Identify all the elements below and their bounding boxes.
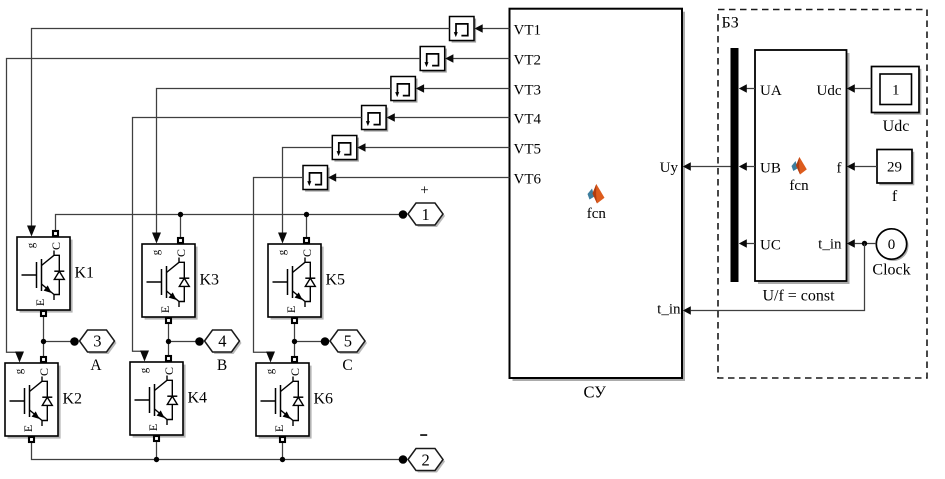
- wire phase B stub to port 4: [169, 341, 200, 343]
- junction on Clock wire: [862, 241, 867, 246]
- IGBT half-bridge switch K4: [130, 351, 207, 442]
- svg-text:БЗ: БЗ: [722, 15, 739, 32]
- wire branch to K5 collector: [306, 215, 308, 245]
- constant block f = 29: [877, 150, 914, 206]
- svg-text:K1: K1: [75, 265, 95, 282]
- wire DC+ bus from port 1 to collectors of K1 K3 K5: [56, 215, 404, 238]
- port 3 (phase A): [70, 330, 116, 354]
- wire VT6 gate of K6: [254, 178, 304, 353]
- svg-text:3: 3: [93, 331, 101, 350]
- wire DC- bus from emitters of K2 K4 K6 to port 2: [32, 436, 404, 460]
- junction phase A: [41, 339, 46, 344]
- svg-text:U/f = const: U/f = const: [762, 288, 835, 305]
- svg-text:VT2: VT2: [514, 52, 542, 68]
- svg-text:f: f: [837, 160, 842, 176]
- label - of DC bus: [420, 434, 427, 436]
- wire VT5 gate of K5: [283, 148, 333, 234]
- svg-text:0: 0: [888, 237, 896, 253]
- svg-text:K3: K3: [200, 272, 220, 289]
- wire VT2 gate of K2: [7, 59, 421, 353]
- memory block M6: [303, 166, 336, 192]
- svg-text:VT1: VT1: [514, 22, 542, 38]
- wire K4 emitter to DC- bus: [156, 435, 158, 460]
- svg-text:+: +: [420, 182, 428, 198]
- dashed boundary of BZ (БЗ) subsystem: [718, 10, 927, 379]
- memory block M1: [450, 17, 483, 43]
- wire from CY output VT5 to memory block M5: [365, 147, 509, 149]
- svg-text:СУ: СУ: [583, 382, 606, 401]
- IGBT half-bridge switch K6: [256, 352, 333, 443]
- wire from CY output VT2 to memory block M2: [453, 58, 509, 60]
- svg-text:UA: UA: [760, 83, 782, 99]
- svg-text:VT6: VT6: [514, 171, 542, 187]
- svg-text:f: f: [892, 188, 898, 205]
- svg-text:UC: UC: [760, 237, 781, 253]
- svg-text:29: 29: [887, 160, 902, 176]
- svg-text:K2: K2: [63, 391, 83, 408]
- fcn icon of U/f block: [789, 157, 809, 194]
- memory block M4: [362, 106, 395, 132]
- junction on DC+ bus at K5: [304, 212, 309, 217]
- svg-text:Uy: Uy: [660, 160, 679, 176]
- svg-text:K6: K6: [314, 391, 334, 408]
- port 5 (phase C): [321, 330, 367, 354]
- fcn icon of CY: [587, 184, 607, 222]
- wire from CY output VT4 to memory block M4: [395, 117, 510, 119]
- constant block Udc = 1: [872, 67, 922, 136]
- wire Udc constant to U/f block: [855, 88, 872, 90]
- Clock block: [872, 229, 910, 279]
- wire branch to K3 collector: [180, 215, 182, 245]
- wire VT3 gate of K3: [157, 89, 391, 234]
- junction phase B: [166, 339, 171, 344]
- svg-text:4: 4: [218, 331, 226, 350]
- svg-text:K4: K4: [188, 390, 208, 407]
- wire UC output into mux bar: [747, 243, 756, 245]
- IGBT half-bridge switch K3: [142, 233, 219, 324]
- svg-text:VT3: VT3: [514, 82, 542, 98]
- junction phase C: [292, 339, 297, 344]
- port 1 (DC+): [399, 203, 445, 227]
- svg-text:UB: UB: [760, 160, 781, 176]
- wire phase A stub to port 3: [44, 341, 75, 343]
- svg-text:K5: K5: [326, 272, 346, 289]
- wire f constant to U/f block: [855, 166, 877, 168]
- wire from CY output VT6 to memory block M6: [336, 177, 510, 179]
- wire phase C: K5 emitter to K6 collector: [294, 317, 296, 363]
- wire VT4 gate of K4: [133, 118, 362, 352]
- wire UA output into mux bar: [747, 88, 756, 90]
- wire UB output into mux bar: [747, 166, 756, 168]
- svg-text:VT5: VT5: [514, 141, 542, 157]
- svg-text:5: 5: [344, 331, 352, 350]
- memory block M5: [332, 136, 365, 162]
- svg-text:fcn: fcn: [789, 178, 809, 194]
- wire VT1 gate of K1: [32, 29, 450, 227]
- port 2 (DC-): [399, 449, 445, 473]
- controller block CY (СУ): [510, 9, 686, 402]
- junction DC- bus at K4: [154, 457, 159, 462]
- port 4 (phase B): [195, 330, 241, 354]
- svg-text:1: 1: [892, 82, 900, 98]
- wire phase A: K1 emitter to K2 collector: [43, 310, 45, 363]
- wire Clock branch to t_in of CY: [691, 244, 865, 311]
- svg-text:fcn: fcn: [587, 206, 607, 222]
- svg-text:t_in: t_in: [818, 237, 842, 253]
- svg-text:C: C: [342, 357, 352, 374]
- svg-text:2: 2: [421, 450, 429, 469]
- wire phase B: K3 emitter to K4 collector: [168, 317, 170, 362]
- svg-text:B: B: [217, 357, 227, 374]
- IGBT half-bridge switch K5: [268, 233, 345, 324]
- svg-text:A: A: [90, 357, 102, 374]
- svg-text:1: 1: [421, 205, 429, 224]
- svg-text:Udc: Udc: [883, 118, 910, 135]
- wire mux output to Uy input of CY: [691, 166, 731, 168]
- wire K6 emitter to DC- bus: [282, 436, 284, 460]
- junction on DC+ bus at K3: [178, 212, 183, 217]
- memory block M3: [391, 77, 424, 103]
- wire from CY output VT3 to memory block M3: [424, 88, 510, 90]
- U/f = const function block: [755, 50, 850, 305]
- wire Clock to t_in of U/f block: [855, 243, 877, 245]
- svg-text:Udc: Udc: [817, 83, 842, 99]
- svg-text:t_in: t_in: [657, 302, 681, 318]
- wire phase C stub to port 5: [295, 341, 326, 343]
- IGBT half-bridge switch K1: [17, 226, 94, 317]
- svg-text:Clock: Clock: [872, 262, 910, 279]
- wire from CY output VT1 to memory block M1: [483, 28, 510, 30]
- memory block M2: [420, 47, 453, 73]
- junction DC- bus at K6: [280, 457, 285, 462]
- svg-text:VT4: VT4: [514, 111, 542, 127]
- IGBT half-bridge switch K2: [5, 352, 82, 443]
- mux bar: [731, 48, 739, 282]
